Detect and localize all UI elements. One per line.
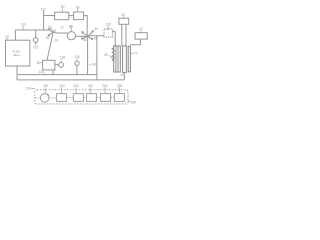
svg-text:CELL: CELL [13,53,21,57]
svg-text:60: 60 [105,53,109,57]
svg-text:220: 220 [73,84,79,88]
svg-text:48: 48 [94,37,98,41]
svg-text:12: 12 [60,25,64,29]
svg-text:50: 50 [37,61,41,65]
svg-text:80: 80 [76,5,80,9]
svg-text:210: 210 [59,84,65,88]
svg-text:250: 250 [117,84,123,88]
svg-text:100: 100 [106,23,112,27]
svg-text:200: 200 [131,100,137,104]
svg-text:140: 140 [92,63,98,67]
svg-text:110: 110 [21,23,26,27]
svg-text:230: 230 [88,84,94,88]
svg-text:240: 240 [102,84,108,88]
svg-text:172: 172 [33,45,39,49]
svg-text:42: 42 [139,27,143,31]
svg-text:30: 30 [70,25,74,29]
svg-text:120: 120 [26,87,32,91]
svg-text:26: 26 [45,36,49,40]
svg-text:90: 90 [61,5,65,9]
svg-text:24: 24 [48,25,52,29]
svg-text:44: 44 [94,27,98,31]
svg-text:134: 134 [74,55,80,59]
svg-text:10: 10 [5,35,9,39]
svg-text:40: 40 [121,13,125,17]
svg-text:28: 28 [54,38,58,42]
svg-text:190: 190 [43,84,49,88]
svg-text:70: 70 [134,52,138,56]
svg-text:46: 46 [83,38,87,42]
svg-text:136: 136 [60,56,66,60]
svg-text:112: 112 [41,7,46,11]
svg-text:130: 130 [39,70,45,74]
svg-text:62: 62 [121,73,125,77]
